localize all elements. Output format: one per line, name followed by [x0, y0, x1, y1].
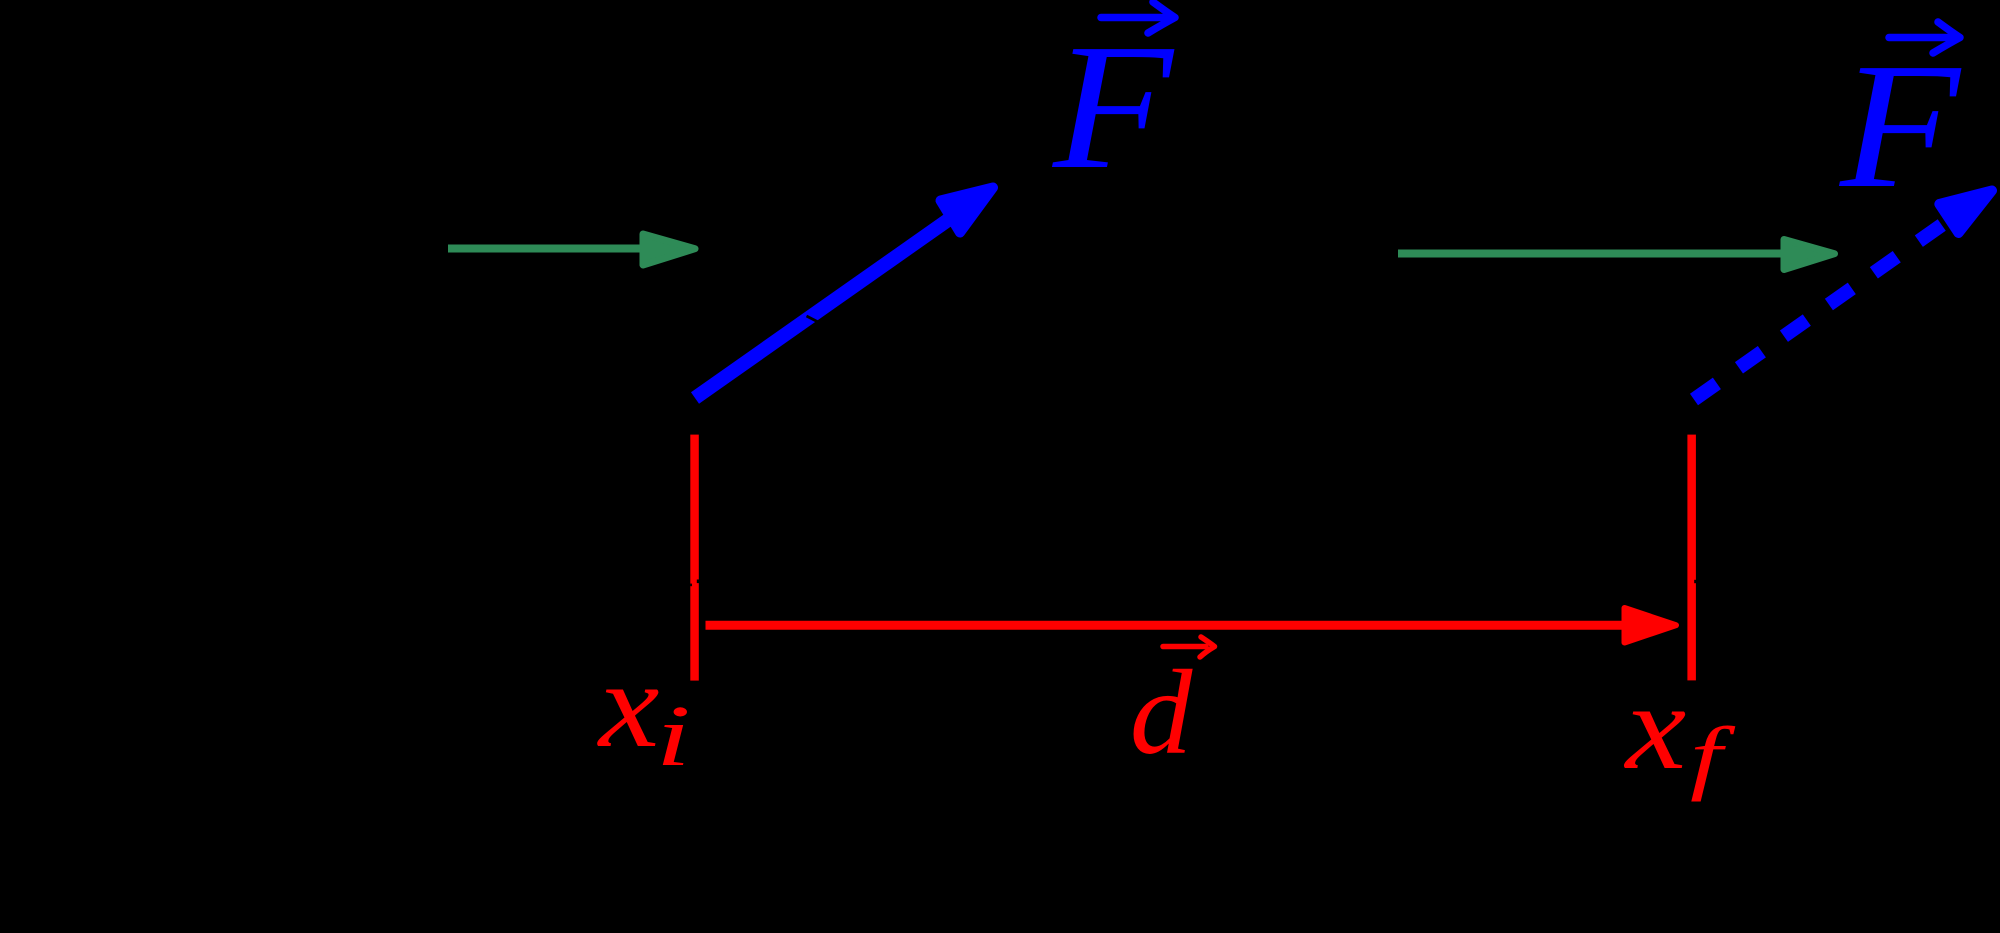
- ground-line notch on tick xf: [1694, 580, 1696, 583]
- label xi (red): [597, 637, 691, 784]
- svg-text:F: F: [1051, 6, 1175, 206]
- vec arrow over d: [1163, 637, 1215, 657]
- svg-text:d: d: [1130, 645, 1193, 780]
- ground-line notch on tick xi: [697, 580, 699, 584]
- force vector F at xi (solid blue arrow): [695, 188, 993, 399]
- svg-text:F: F: [1838, 25, 1962, 225]
- label F (over xf) with vec arrow, blue: [1838, 25, 1962, 225]
- vec arrow over F2: [1889, 22, 1960, 53]
- velocity arrow v (left, green): [448, 234, 695, 265]
- position tick xi (red): [690, 435, 699, 681]
- label F (over xi) with vec arrow, blue: [1051, 6, 1175, 206]
- svg-text:x: x: [1623, 659, 1686, 795]
- vec arrow over F1: [1101, 2, 1175, 33]
- label d with vec arrow (red): [1130, 645, 1193, 780]
- displacement arrow d (red): [706, 608, 1677, 643]
- position tick xf (red): [1687, 435, 1696, 681]
- force vector F at xf (dashed blue arrow): [1694, 191, 1992, 400]
- svg-text:x: x: [597, 637, 660, 773]
- label xf (red): [1623, 659, 1735, 802]
- velocity arrow v (right, green): [1398, 240, 1835, 270]
- black notch overlay crossing solid F arrow (hidden block edge): [807, 316, 822, 324]
- svg-text:i: i: [656, 688, 691, 784]
